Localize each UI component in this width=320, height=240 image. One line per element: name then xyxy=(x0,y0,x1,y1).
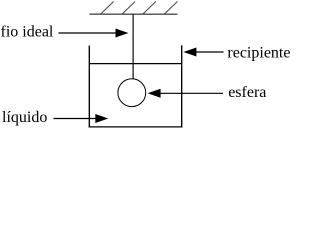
arrow liquido: stem xyxy=(54,118,97,120)
arrow esfera: head xyxy=(148,89,161,98)
arrow recipiente: stem xyxy=(195,51,224,53)
ceiling hatch 1 xyxy=(101,2,114,15)
arrow fio ideal: head xyxy=(116,29,129,38)
ceiling line xyxy=(89,13,177,15)
ceiling hatch 2 xyxy=(122,2,135,15)
arrow liquido: head xyxy=(95,114,108,123)
wire (fio ideal) xyxy=(132,14,134,79)
container left wall xyxy=(88,46,90,128)
container bottom xyxy=(89,126,183,128)
arrow fio ideal: stem xyxy=(59,32,117,34)
sphere (esfera) xyxy=(118,79,146,107)
liquid surface xyxy=(89,63,181,65)
svg-text:esfera: esfera xyxy=(228,84,266,101)
arrow recipiente: head xyxy=(183,48,196,57)
svg-text:líquido: líquido xyxy=(2,109,47,126)
arrow esfera: stem xyxy=(160,92,224,94)
ceiling hatch 3 xyxy=(143,2,156,15)
svg-text:recipiente: recipiente xyxy=(227,45,290,62)
ceiling hatch 4 xyxy=(164,2,177,15)
container right wall xyxy=(181,45,183,127)
svg-text:fio ideal: fio ideal xyxy=(1,24,54,41)
